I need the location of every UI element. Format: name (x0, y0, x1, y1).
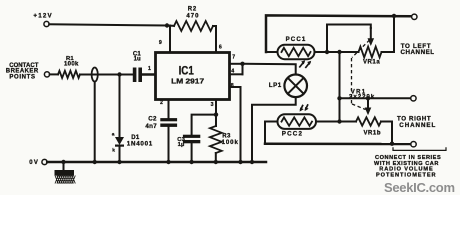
wire pin 7 to lamp LP1 (243, 64, 296, 75)
svg-text:2: 2 (160, 100, 163, 106)
svg-text:0V: 0V (29, 160, 39, 166)
+12V supply terminal (33, 12, 52, 26)
svg-text:9: 9 (159, 40, 162, 46)
photocell PCC1 (278, 36, 315, 59)
svg-text:PCC1: PCC1 (286, 36, 307, 43)
wire LP1 bottom return to 0V rail (252, 97, 296, 162)
wire PCC1 right to VR1a (315, 51, 359, 53)
wire bottom to right-channel terminal (265, 142, 411, 145)
potentiometer VR1b (356, 117, 381, 136)
dashed gang link VR1a-VR1b (352, 40, 370, 110)
op-amp IC1 LM2917 (156, 53, 230, 100)
svg-text:6: 6 (219, 45, 222, 51)
junction +12V / R2 / pin 9 (165, 23, 169, 27)
pin 7 stub and label (230, 63, 243, 65)
wire PCC2 right to VR1b (316, 121, 356, 123)
wire common node to middle terminal (340, 97, 411, 99)
terminal to left channel (top) (412, 14, 417, 19)
svg-text:IC1: IC1 (179, 63, 194, 77)
wire R2 right down to pin 6 (213, 26, 216, 53)
wire junction down to D1 (119, 75, 121, 138)
capacitor C3 1u (177, 135, 200, 148)
wire R1 to C1 (80, 74, 133, 76)
wire junction to R2 left (167, 25, 174, 27)
junction pin 3 / C3 / R3 (214, 112, 218, 116)
junction common node / middle terminal wire (337, 96, 341, 100)
wire C3 to 0V rail (191, 143, 193, 162)
svg-text:VR1a: VR1a (363, 60, 380, 66)
svg-text:CHANNEL: CHANNEL (399, 122, 436, 129)
svg-text:SeekIC.com: SeekIC.com (384, 180, 455, 195)
0V terminal (29, 159, 47, 166)
capacitor C1 1u (133, 51, 142, 82)
wire VR1a right end up to top rail (382, 16, 395, 52)
resistor R3 100k (210, 126, 239, 153)
wire terminal to R1 (50, 73, 58, 75)
pin 4 stub and label (230, 73, 243, 75)
svg-text:8: 8 (231, 83, 234, 89)
label VR1 2x220k (349, 89, 375, 100)
wire VR1b right end down to bottom wire (381, 122, 392, 144)
svg-text:100k: 100k (222, 139, 239, 146)
wire pin4 to pin7 tie (242, 64, 244, 75)
potentiometer VR1a (359, 47, 382, 66)
svg-text:C2: C2 (148, 116, 157, 123)
wire D1 cathode to 0V rail (119, 146, 121, 162)
wire pin 8 down to 0V rail (240, 87, 242, 162)
lamp LP1 (269, 75, 307, 98)
resistor R1 (58, 56, 80, 78)
svg-text:470: 470 (186, 14, 199, 20)
svg-text:POINTS: POINTS (9, 75, 35, 81)
junction common vertical / PCC2 wire (337, 119, 341, 123)
svg-text:1u: 1u (134, 56, 141, 62)
label TO LEFT CHANNEL (401, 43, 435, 56)
junction wiper-bracket / PCC1 wire (325, 50, 329, 54)
wire loop down to 0V rail (94, 82, 96, 163)
svg-text:7: 7 (232, 54, 235, 60)
junction R1/C1/D1 node (117, 72, 121, 76)
resistor R2 (174, 7, 213, 31)
light arrows into PCC2 (300, 104, 309, 111)
wire pin3 node to C3 (192, 115, 216, 135)
wire PCC2 left lead down to bottom wire (265, 122, 278, 144)
ground (55, 162, 76, 184)
capacitor C2 4n7 (145, 116, 177, 130)
note CONNECT IN SERIES WITH EXISTING CAR RADIO VOLUME POTENTIOMETER (374, 155, 441, 179)
wire top rail to left-channel terminal (266, 15, 412, 52)
photocell PCC2 (278, 114, 317, 137)
wire +12V rail to R2 junction (49, 24, 167, 25)
wire C1 to pin 1 (142, 73, 156, 76)
junction pin 7 node (240, 62, 244, 66)
wire VR1a wiper bracket (327, 25, 371, 53)
svg-text:1µ: 1µ (178, 142, 185, 148)
svg-text:R2: R2 (188, 7, 197, 13)
svg-text:4: 4 (231, 69, 234, 75)
terminal to right channel (bottom) (411, 142, 416, 147)
pin 3 stub (215, 100, 217, 127)
junction VR1b wiper / middle wire (366, 96, 370, 100)
junction dots on 0V rail (61, 160, 65, 164)
crossover loop on breaker-points wire (92, 68, 98, 82)
VR1a wiper arrow (368, 28, 375, 46)
junction top wire / VR1a right (392, 14, 396, 18)
wire C2 to 0V rail (168, 127, 170, 162)
wire common node vertical (339, 52, 341, 122)
light arrows into PCC1 (299, 60, 311, 68)
wire R3 to 0V rail (215, 153, 217, 162)
middle terminal (common) (411, 96, 416, 101)
diode D1 1N4001 (112, 132, 153, 153)
svg-text:PCC2: PCC2 (282, 131, 303, 138)
junction VR1b / bottom wire (390, 142, 394, 146)
label TO RIGHT CHANNEL (397, 116, 436, 129)
svg-text:CHANNEL: CHANNEL (401, 49, 435, 56)
wire 0V rail (47, 161, 266, 164)
wire pin 9 drop from +12V junction (169, 26, 171, 53)
svg-text:100k: 100k (64, 62, 79, 68)
svg-text:POTENTIOMETER: POTENTIOMETER (376, 173, 437, 179)
svg-text:3: 3 (211, 102, 214, 108)
svg-text:a: a (112, 132, 115, 137)
junction common-node vertical / PCC1 wire (337, 50, 341, 54)
svg-text:VR1b: VR1b (364, 131, 382, 137)
svg-text:LM 2917: LM 2917 (171, 78, 204, 85)
svg-text:+12V: +12V (33, 12, 52, 19)
pin 8 stub and label (230, 86, 241, 88)
svg-text:1N4001: 1N4001 (127, 141, 153, 148)
bracket connect-in-series (393, 147, 446, 150)
svg-text:2×220k: 2×220k (349, 93, 375, 100)
pin 2 stub (168, 100, 170, 119)
wire PCC1 left lead (266, 51, 278, 53)
svg-text:k: k (112, 147, 115, 153)
svg-text:LP1: LP1 (269, 82, 282, 89)
svg-text:1: 1 (148, 66, 151, 72)
VR1b wiper arrow (365, 98, 372, 115)
svg-text:4n7: 4n7 (145, 123, 157, 130)
input terminal CONTACT BREAKER POINTS (6, 63, 50, 81)
